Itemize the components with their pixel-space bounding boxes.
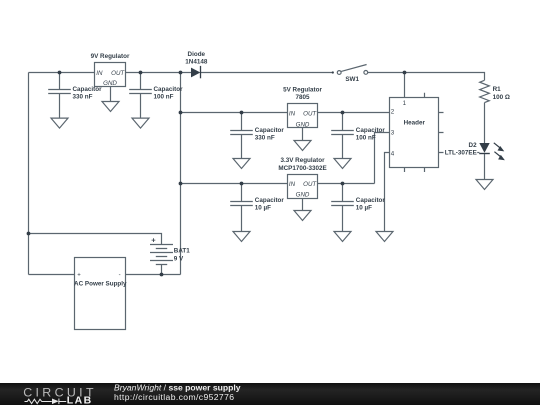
CircuitLab logo CIRCUIT text <box>23 385 97 399</box>
svg-text:Capacitor: Capacitor <box>73 86 103 93</box>
ground capacitor C2 <box>132 118 149 128</box>
wire battery minus stub <box>161 265 163 275</box>
svg-text:330 nF: 330 nF <box>73 94 93 101</box>
switch SW1 <box>332 65 368 75</box>
svg-text:IN: IN <box>96 70 103 77</box>
ground LED D2 <box>476 180 493 190</box>
label diode D1 <box>185 51 208 65</box>
svg-text:100 nF: 100 nF <box>154 94 174 101</box>
wire 3.3V rail right <box>318 183 375 185</box>
wire 9V regulator OUT to diode anode <box>126 72 192 74</box>
svg-text:OUT: OUT <box>303 110 317 117</box>
footer author and schematic title <box>114 382 241 402</box>
capacitor C1 330 nF <box>48 73 71 119</box>
node junction header pin1 rail <box>403 71 407 75</box>
svg-text:5V Regulator: 5V Regulator <box>283 86 322 93</box>
label capacitor C6 value <box>356 197 386 212</box>
capacitor C6 10 uF <box>331 184 354 232</box>
node junction 5V rail left <box>179 111 183 115</box>
header J1 <box>390 93 444 172</box>
svg-text:10 µF: 10 µF <box>255 205 271 212</box>
wire R1 to LED D2 <box>484 103 486 144</box>
svg-text:Capacitor: Capacitor <box>154 86 184 93</box>
svg-text:Capacitor: Capacitor <box>356 197 386 204</box>
svg-text:LTL-307EE: LTL-307EE <box>445 150 477 157</box>
wire header pin 3 to 3.3V rail <box>375 133 390 184</box>
svg-text:-: - <box>119 273 121 279</box>
label R1 100 Ohm <box>493 86 510 101</box>
node junction C4 top <box>341 111 345 115</box>
svg-text:GND: GND <box>296 191 310 198</box>
svg-text:100 nF: 100 nF <box>356 135 376 142</box>
svg-text:BryanWright / sse power supply: BryanWright / sse power supply <box>114 382 241 392</box>
CircuitLab logo doodle resistor <box>25 399 52 403</box>
wire battery plus rail <box>29 234 162 245</box>
CircuitLab logo doodle diode <box>52 399 66 405</box>
wire 5V rail left <box>181 112 288 114</box>
ground capacitor C1 <box>51 118 68 128</box>
wire diode cathode to SW1 <box>201 72 332 74</box>
svg-text:Capacitor: Capacitor <box>255 127 285 134</box>
svg-text:IN: IN <box>289 181 296 188</box>
capacitor C5 10 uF <box>230 184 253 232</box>
svg-text:1: 1 <box>403 100 407 107</box>
label capacitor C4 value <box>356 127 386 142</box>
node junction C2 top <box>139 71 143 75</box>
svg-text:BAT1: BAT1 <box>174 247 190 254</box>
LED D2 LTL-307EE <box>477 143 505 161</box>
svg-text:9 V: 9 V <box>174 256 184 263</box>
svg-text:Capacitor: Capacitor <box>255 197 285 204</box>
label 3.3V Regulator MCP1700-3302E <box>278 157 326 172</box>
ground 3.3V regulator <box>294 211 311 221</box>
capacitor C4 100 nF <box>331 113 354 159</box>
svg-text:GND: GND <box>103 80 117 87</box>
wire main vertical bus <box>180 73 182 275</box>
svg-text:D2: D2 <box>469 142 478 149</box>
svg-text:R1: R1 <box>493 86 502 93</box>
label SW1 <box>345 76 359 83</box>
wire SW1 to R1 corner <box>368 73 485 81</box>
wire LED D2 to ground <box>484 154 486 180</box>
label D2 LTL-307EE <box>445 142 477 157</box>
label 5V Regulator 7805 <box>283 86 322 101</box>
svg-text:3.3V Regulator: 3.3V Regulator <box>280 157 325 164</box>
node junction main vertical top <box>179 71 183 75</box>
ground 9V regulator <box>102 102 119 112</box>
svg-text:10 µF: 10 µF <box>356 205 372 212</box>
svg-text:OUT: OUT <box>303 181 317 188</box>
svg-text:330 nF: 330 nF <box>255 135 275 142</box>
ground 5V regulator <box>294 141 311 151</box>
svg-text:1N4148: 1N4148 <box>185 58 208 65</box>
svg-text:Diode: Diode <box>188 51 206 58</box>
svg-text:Capacitor: Capacitor <box>356 127 386 134</box>
svg-text:AC Power Supply: AC Power Supply <box>74 281 127 288</box>
wire 3.3V regulator GND stub <box>302 199 304 211</box>
svg-text:IN: IN <box>289 110 296 117</box>
svg-text:100 Ω: 100 Ω <box>493 94 510 101</box>
svg-text:SW1: SW1 <box>345 76 359 83</box>
svg-text:4: 4 <box>391 150 395 157</box>
node junction battery minus <box>160 273 164 277</box>
footer bar <box>0 383 540 405</box>
node junction C6 top <box>341 182 345 186</box>
wire header pin 4 to ground <box>385 153 390 232</box>
label BAT1 9 V <box>174 247 190 262</box>
wire AC supply minus to main vertical <box>126 274 181 276</box>
label AC Power Supply <box>74 281 127 288</box>
label 9V Regulator <box>91 53 130 60</box>
ground header pin 4 <box>376 232 393 242</box>
wire top rail into 9V regulator IN <box>29 72 95 74</box>
ground capacitor C5 <box>233 232 250 242</box>
battery BAT1 9 V <box>150 245 173 265</box>
regulator U3 3.3V Regulator MCP1700-3302E <box>288 175 318 199</box>
svg-text:MCP1700-3302E: MCP1700-3302E <box>278 165 326 172</box>
CircuitLab logo LAB text <box>67 395 93 405</box>
regulator U1 9V Regulator <box>95 63 126 88</box>
label capacitor C2 value <box>154 86 184 101</box>
node junction C3 top <box>240 111 244 115</box>
svg-text:Header: Header <box>404 119 426 126</box>
node junction C1 top <box>58 71 62 75</box>
node junction 3.3V rail left <box>179 182 183 186</box>
resistor R1 <box>480 80 490 102</box>
svg-text:7805: 7805 <box>295 94 310 101</box>
node junction C5 top <box>240 182 244 186</box>
capacitor C2 100 nF <box>129 73 152 119</box>
ground capacitor C6 <box>334 232 351 242</box>
wire bottom-left to AC supply <box>29 274 75 276</box>
svg-text:2: 2 <box>391 108 395 115</box>
ground capacitor C4 <box>334 159 351 169</box>
svg-text:OUT: OUT <box>111 70 125 77</box>
label battery plus sign <box>151 236 156 245</box>
label capacitor C3 value <box>255 127 285 142</box>
wire 5V regulator GND stub <box>302 128 304 141</box>
wire 9V regulator GND stub <box>110 87 112 102</box>
node junction battery plus rail <box>27 232 31 236</box>
wire 5V rail right to header pin 2 <box>318 112 390 114</box>
svg-text:+: + <box>77 273 81 279</box>
svg-text:9V Regulator: 9V Regulator <box>91 53 130 60</box>
svg-text:GND: GND <box>296 121 310 128</box>
wire 3.3V rail left <box>181 183 288 185</box>
svg-text:+: + <box>151 236 156 245</box>
label capacitor C1 value <box>73 86 103 101</box>
regulator U2 5V Regulator 7805 <box>288 104 318 129</box>
wire left vertical <box>28 73 30 275</box>
capacitor C3 330 nF <box>230 113 253 159</box>
ground capacitor C3 <box>233 159 250 169</box>
label Header <box>404 119 426 126</box>
wire header pin 1 to top rail <box>404 73 406 98</box>
AC power supply V1 <box>75 258 126 330</box>
svg-text:LAB: LAB <box>67 395 93 405</box>
svg-text:http://circuitlab.com/c952776: http://circuitlab.com/c952776 <box>114 392 234 402</box>
svg-text:3: 3 <box>391 129 395 136</box>
diode D1 1N4148 <box>191 66 201 78</box>
label capacitor C5 value <box>255 197 285 212</box>
